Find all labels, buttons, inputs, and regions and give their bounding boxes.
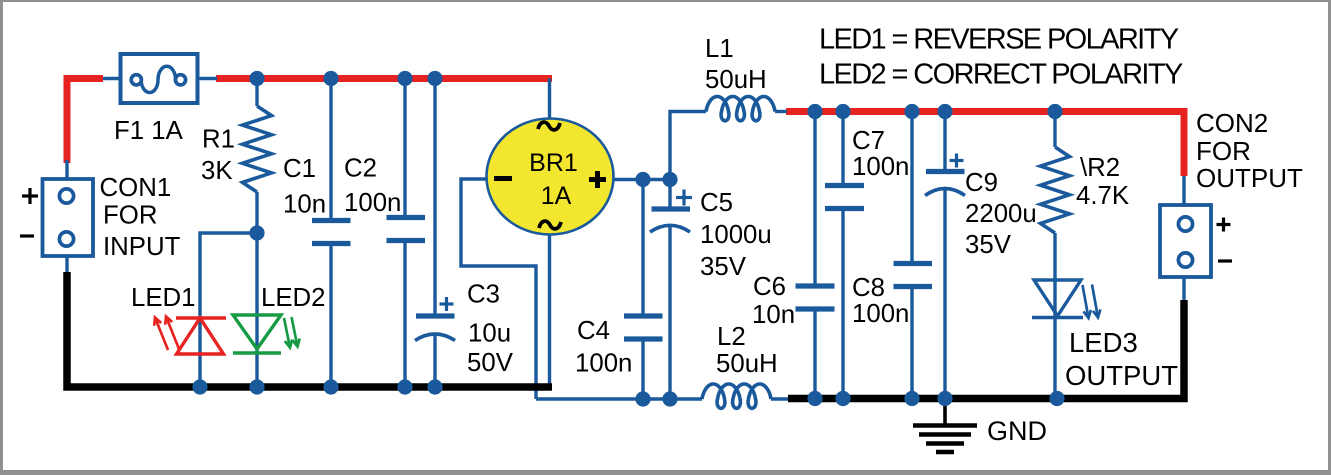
svg-text:100n: 100n — [344, 189, 401, 217]
svg-text:50uH: 50uH — [716, 350, 778, 378]
svg-text:C9: C9 — [965, 169, 998, 197]
svg-text:10n: 10n — [752, 301, 795, 329]
svg-text:LED2 = CORRECT POLARITY: LED2 = CORRECT POLARITY — [819, 59, 1183, 91]
svg-text:1A: 1A — [541, 182, 572, 210]
svg-text:10n: 10n — [283, 191, 326, 219]
svg-text:FOR: FOR — [103, 202, 157, 230]
svg-text:INPUT: INPUT — [103, 233, 181, 261]
svg-text:35V: 35V — [700, 253, 747, 281]
svg-text:50uH: 50uH — [705, 66, 767, 94]
svg-text:GND: GND — [987, 416, 1047, 446]
svg-text:FOR: FOR — [1196, 136, 1251, 166]
svg-text:50V: 50V — [467, 349, 514, 377]
svg-text:LED3: LED3 — [1069, 327, 1138, 358]
svg-text:C5: C5 — [700, 189, 733, 217]
svg-text:OUTPUT: OUTPUT — [1065, 360, 1178, 391]
svg-text:100n: 100n — [852, 300, 909, 328]
svg-text:C4: C4 — [577, 317, 610, 345]
svg-text:3K: 3K — [201, 157, 233, 185]
svg-text:C2: C2 — [344, 155, 377, 183]
svg-text:L2: L2 — [717, 323, 746, 351]
svg-text:C6: C6 — [753, 273, 786, 301]
svg-text:\R2: \R2 — [1080, 154, 1120, 182]
svg-text:1000u: 1000u — [700, 221, 772, 249]
svg-text:C3: C3 — [467, 281, 500, 309]
svg-text:LED1: LED1 — [131, 284, 196, 312]
svg-text:C7: C7 — [852, 127, 885, 155]
svg-text:35V: 35V — [965, 231, 1012, 259]
svg-text:BR1: BR1 — [529, 149, 578, 177]
svg-text:L1: L1 — [705, 35, 734, 63]
svg-text:4.7K: 4.7K — [1076, 182, 1129, 210]
svg-text:F1 1A: F1 1A — [114, 117, 184, 145]
svg-text:2200u: 2200u — [965, 200, 1037, 228]
svg-text:R1: R1 — [202, 126, 235, 154]
svg-text:LED2: LED2 — [261, 284, 326, 312]
svg-text:CON1: CON1 — [100, 174, 172, 202]
svg-text:OUTPUT: OUTPUT — [1196, 163, 1303, 193]
svg-text:100n: 100n — [852, 153, 909, 181]
svg-text:100n: 100n — [575, 350, 632, 378]
svg-text:C8: C8 — [852, 274, 885, 302]
svg-text:LED1 = REVERSE POLARITY: LED1 = REVERSE POLARITY — [819, 24, 1179, 56]
svg-text:10u: 10u — [468, 320, 511, 348]
svg-text:C1: C1 — [283, 155, 316, 183]
svg-text:CON2: CON2 — [1196, 108, 1268, 138]
